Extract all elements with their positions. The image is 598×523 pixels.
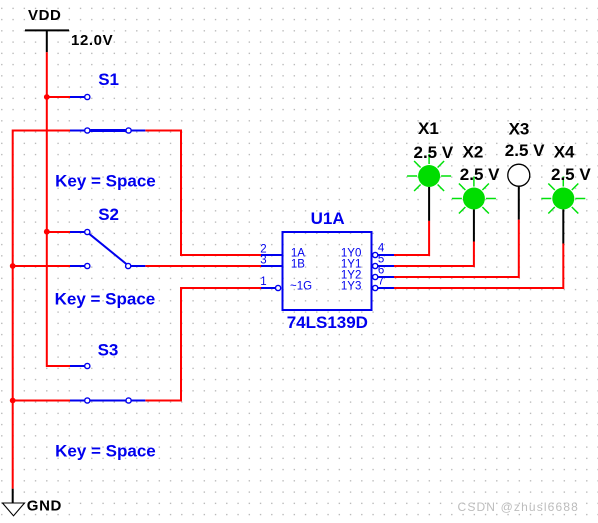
svg-text:VDD: VDD bbox=[28, 7, 61, 24]
svg-text:Key = Space: Key = Space bbox=[55, 441, 156, 460]
svg-text:12.0V: 12.0V bbox=[71, 32, 113, 49]
svg-text:X4: X4 bbox=[554, 143, 575, 162]
svg-text:74LS139D: 74LS139D bbox=[287, 313, 368, 332]
svg-text:2.5 V: 2.5 V bbox=[414, 143, 454, 162]
svg-text:CSDN @zhusl6688: CSDN @zhusl6688 bbox=[458, 500, 579, 514]
svg-text:X1: X1 bbox=[418, 119, 439, 138]
svg-text:Key = Space: Key = Space bbox=[55, 289, 156, 308]
svg-text:7: 7 bbox=[378, 275, 384, 287]
svg-text:2.5 V: 2.5 V bbox=[551, 165, 591, 184]
svg-text:S3: S3 bbox=[98, 341, 119, 360]
svg-text:GND: GND bbox=[27, 497, 62, 514]
svg-text:S2: S2 bbox=[98, 205, 119, 224]
svg-text:Key = Space: Key = Space bbox=[55, 172, 156, 191]
svg-text:1Y3: 1Y3 bbox=[341, 280, 361, 292]
svg-text:1: 1 bbox=[260, 276, 266, 288]
svg-text:U1A: U1A bbox=[311, 209, 345, 228]
svg-text:S1: S1 bbox=[98, 70, 119, 89]
svg-text:3: 3 bbox=[260, 254, 266, 266]
svg-text:~1G: ~1G bbox=[290, 280, 312, 292]
svg-text:2.5 V: 2.5 V bbox=[505, 141, 545, 160]
svg-text:2.5 V: 2.5 V bbox=[460, 165, 500, 184]
svg-text:X3: X3 bbox=[509, 120, 530, 139]
svg-text:X2: X2 bbox=[463, 143, 484, 162]
svg-text:1B: 1B bbox=[291, 258, 305, 270]
